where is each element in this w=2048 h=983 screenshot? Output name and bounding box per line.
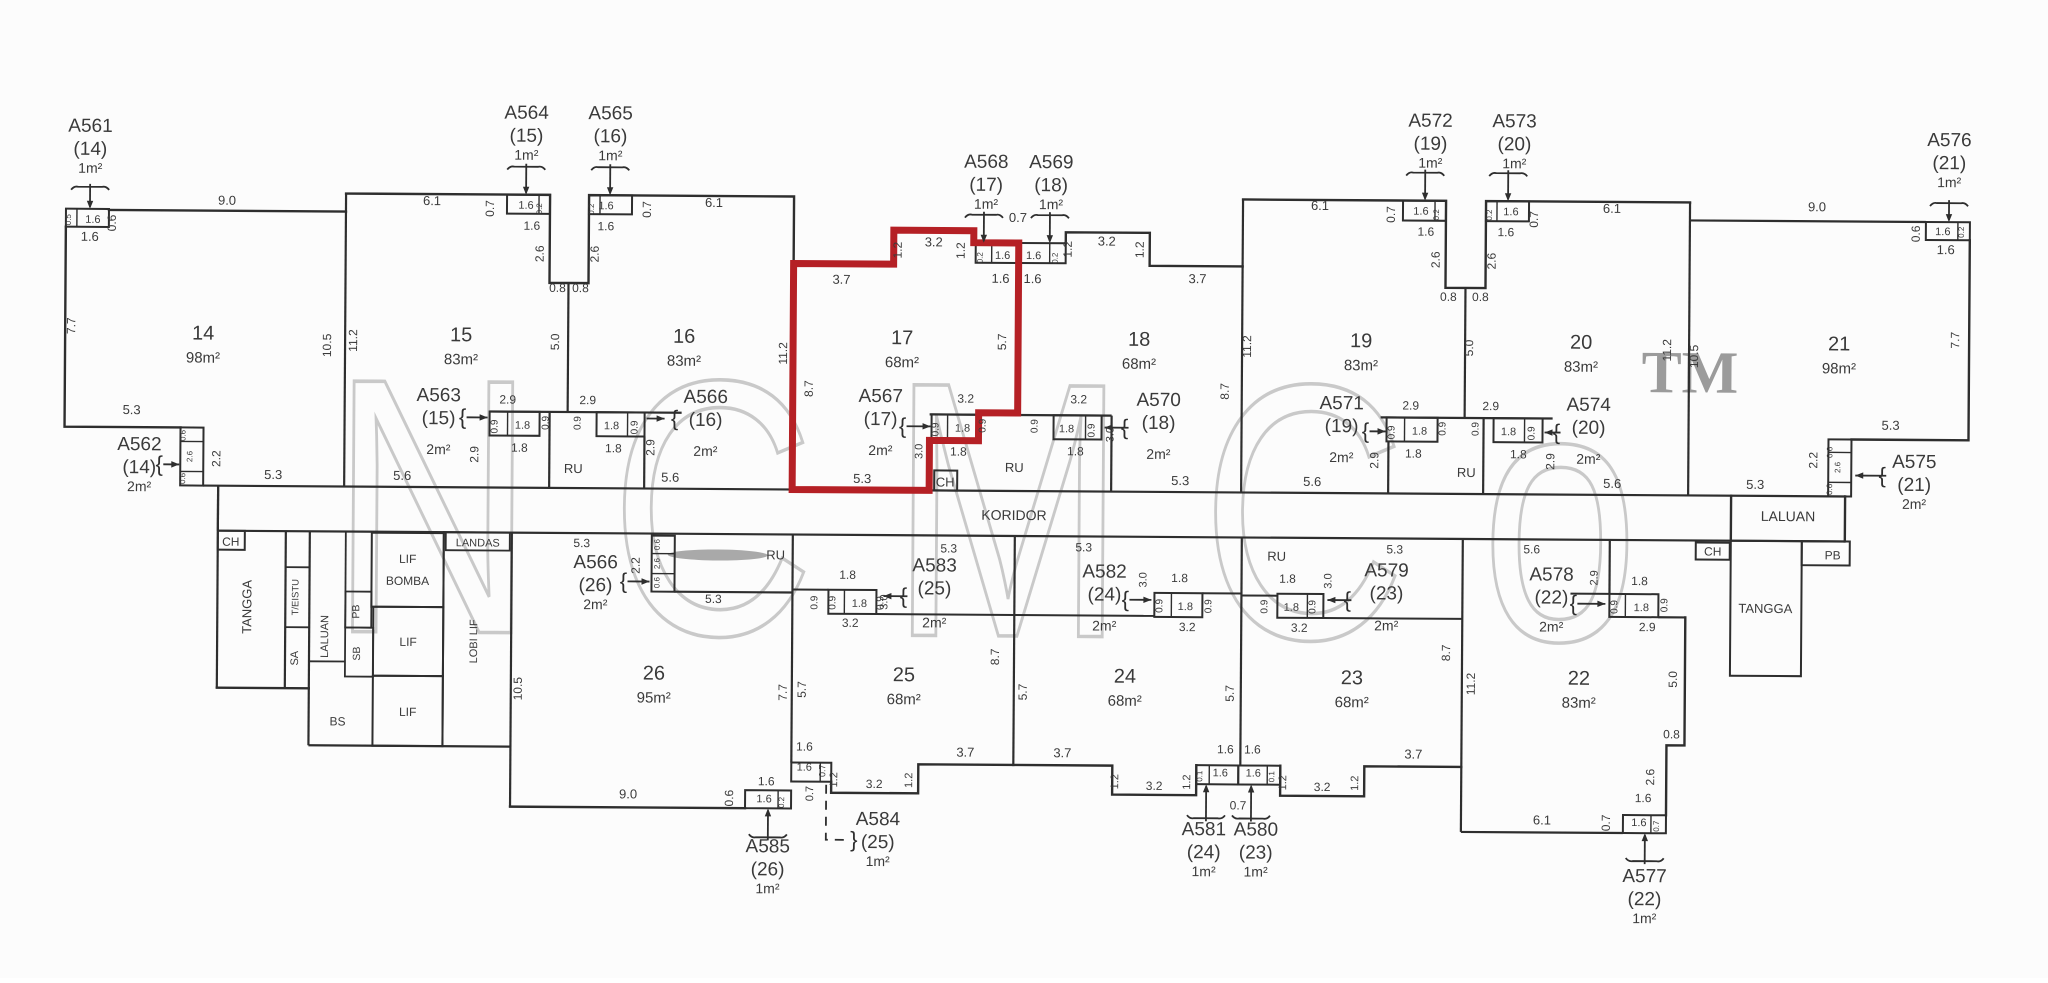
svg-text:1.8: 1.8 — [1510, 447, 1527, 461]
arrow A579 — [1327, 599, 1351, 601]
TANGGA room left — [217, 686, 309, 689]
svg-text:1.2: 1.2 — [1109, 774, 1121, 789]
svg-text:1m²: 1m² — [514, 147, 539, 163]
svg-text:1.6: 1.6 — [1417, 225, 1434, 239]
svg-text:5.3: 5.3 — [1386, 542, 1403, 556]
svg-text:LIF: LIF — [399, 552, 416, 566]
svg-text:6.1: 6.1 — [1533, 812, 1551, 827]
svg-text:2.2: 2.2 — [1806, 452, 1820, 469]
svg-text:(14): (14) — [73, 139, 107, 160]
svg-text:0.9: 0.9 — [1609, 600, 1620, 614]
svg-text:98m²: 98m² — [186, 349, 220, 366]
svg-text:2m²: 2m² — [1146, 446, 1171, 462]
svg-text:1m²: 1m² — [1502, 155, 1527, 171]
svg-text:5.3: 5.3 — [123, 402, 141, 417]
svg-text:1.2: 1.2 — [1133, 241, 1147, 258]
SB box — [345, 628, 373, 677]
svg-text:A581: A581 — [1182, 819, 1227, 840]
niche wall 19-side — [1387, 441, 1390, 493]
svg-text:0.7: 0.7 — [1230, 798, 1247, 812]
PB box right — [1802, 541, 1850, 565]
svg-text:68m²: 68m² — [885, 354, 919, 371]
svg-text:(16): (16) — [593, 126, 627, 147]
svg-text:3.0: 3.0 — [1137, 572, 1149, 587]
wall 19|20 upper — [1464, 288, 1467, 418]
svg-text:0.1: 0.1 — [1267, 771, 1276, 783]
svg-text:2.6: 2.6 — [1485, 252, 1499, 269]
bottom steps 25 — [831, 764, 1013, 794]
svg-text:6.1: 6.1 — [1311, 198, 1329, 213]
svg-text:2.6: 2.6 — [185, 450, 194, 462]
svg-text:1m²: 1m² — [1039, 196, 1064, 212]
svg-text:1.6: 1.6 — [796, 740, 813, 754]
svg-text:2.2: 2.2 — [209, 450, 223, 467]
svg-text:KORIDOR: KORIDOR — [981, 507, 1046, 523]
bottom steps 24 left — [1013, 764, 1196, 795]
svg-text:5.0: 5.0 — [548, 333, 562, 350]
svg-text:A571: A571 — [1319, 393, 1364, 414]
svg-text:}: } — [850, 827, 858, 852]
svg-text:(21): (21) — [1897, 475, 1931, 496]
LOBI LIF column — [442, 532, 443, 746]
svg-text:0.9: 0.9 — [1259, 599, 1270, 613]
svg-text:1.6: 1.6 — [85, 214, 100, 226]
svg-text:3.2: 3.2 — [1146, 779, 1163, 793]
svg-text:2m²: 2m² — [1902, 496, 1927, 512]
arrow A567 — [907, 425, 931, 427]
arrow A581 — [1187, 815, 1225, 818]
unit 18|19 wall — [1241, 199, 1243, 492]
svg-text:3.7: 3.7 — [1188, 271, 1206, 286]
unit 16|17 wall — [792, 263, 793, 489]
svg-text:2.6: 2.6 — [533, 245, 547, 262]
svg-text:RU: RU — [564, 461, 583, 476]
svg-text:83m²: 83m² — [1564, 359, 1598, 376]
notch door box 16 (A565) — [589, 195, 632, 214]
arrow A585 — [749, 834, 787, 837]
svg-text:{: { — [1121, 415, 1129, 440]
svg-text:0.9: 0.9 — [1203, 599, 1214, 613]
svg-text:A576: A576 — [1927, 130, 1972, 151]
arrow A583 — [883, 595, 907, 597]
svg-text:A584: A584 — [856, 809, 901, 830]
svg-text:A564: A564 — [504, 103, 549, 124]
LALUAN box right — [1730, 496, 1733, 541]
svg-text:(18): (18) — [1142, 413, 1176, 434]
svg-text:22: 22 — [1568, 668, 1590, 690]
svg-text:2.2: 2.2 — [629, 557, 643, 574]
service bottom — [308, 745, 510, 746]
svg-text:3.2: 3.2 — [1098, 234, 1116, 249]
LIF 3 — [372, 676, 442, 746]
svg-text:1.6: 1.6 — [1213, 767, 1228, 779]
arrow A565 — [591, 167, 629, 170]
svg-text:0.7: 0.7 — [1009, 210, 1027, 225]
svg-text:2.9: 2.9 — [643, 439, 657, 456]
arrow A573 — [1489, 173, 1527, 176]
corridor bottom line — [218, 531, 1845, 542]
svg-text:3.0: 3.0 — [913, 444, 925, 459]
arrow A575 — [1855, 475, 1886, 477]
svg-text:2.6: 2.6 — [653, 557, 662, 569]
svg-text:1.8: 1.8 — [1067, 444, 1084, 458]
svg-text:TANGGA: TANGGA — [239, 580, 254, 634]
svg-text:0.8: 0.8 — [1472, 290, 1489, 304]
unit 19/20 block top — [1242, 199, 1690, 289]
A581/A580 door boxes — [1196, 765, 1238, 784]
svg-text:3.0: 3.0 — [1322, 573, 1334, 588]
svg-text:1.8: 1.8 — [1405, 447, 1422, 461]
svg-text:1.6: 1.6 — [995, 250, 1010, 262]
svg-text:0.6: 0.6 — [178, 472, 187, 484]
svg-text:68m²: 68m² — [1108, 693, 1142, 710]
svg-text:0.9: 0.9 — [541, 415, 552, 429]
svg-text:83m²: 83m² — [1344, 357, 1378, 374]
svg-text:1.6: 1.6 — [1413, 206, 1428, 218]
arrow A571 — [1370, 430, 1386, 432]
svg-text:1.6: 1.6 — [523, 219, 540, 233]
svg-text:8.7: 8.7 — [1218, 383, 1232, 400]
svg-text:A578: A578 — [1529, 564, 1574, 585]
CH box left — [218, 531, 245, 550]
svg-text:A573: A573 — [1492, 111, 1537, 132]
svg-text:LALUAN: LALUAN — [1761, 508, 1816, 524]
svg-text:0.2: 0.2 — [1485, 209, 1494, 221]
svg-text:0.9: 0.9 — [489, 419, 500, 433]
svg-text:1.6: 1.6 — [1635, 791, 1652, 805]
svg-text:6.1: 6.1 — [423, 193, 441, 208]
svg-text:CH: CH — [222, 535, 239, 549]
svg-text:1.6: 1.6 — [991, 271, 1009, 286]
arrow A563 — [467, 416, 488, 418]
svg-text:2m²: 2m² — [1092, 617, 1117, 633]
svg-text:1.8: 1.8 — [1631, 574, 1648, 588]
svg-text:5.6: 5.6 — [1303, 474, 1321, 489]
svg-text:{: { — [1362, 418, 1370, 443]
svg-text:2m²: 2m² — [583, 596, 608, 612]
svg-text:83m²: 83m² — [444, 351, 478, 368]
svg-text:9.0: 9.0 — [218, 193, 236, 208]
TANGGA room right — [1730, 541, 1802, 676]
bottom steps 23 — [1280, 766, 1461, 797]
svg-text:1.2: 1.2 — [891, 241, 905, 258]
unit 18 top steps — [1066, 232, 1243, 266]
svg-text:2.9: 2.9 — [1589, 570, 1601, 585]
svg-text:26: 26 — [643, 663, 665, 685]
svg-text:A565: A565 — [588, 103, 633, 124]
svg-text:5.3: 5.3 — [573, 536, 590, 550]
svg-text:1.2: 1.2 — [828, 772, 840, 787]
wall 19|20 lower — [1482, 418, 1485, 494]
LIF BOMBA — [371, 533, 443, 607]
svg-text:5.7: 5.7 — [795, 681, 809, 698]
svg-text:3.7: 3.7 — [832, 272, 850, 287]
svg-text:0.9: 0.9 — [1086, 423, 1097, 437]
unit 14|15 wall — [344, 194, 346, 487]
svg-text:19: 19 — [1350, 330, 1372, 352]
arrow A569 — [1031, 215, 1069, 218]
svg-text:{: { — [671, 406, 679, 431]
dashed leader A584 — [826, 785, 846, 840]
svg-text:2.9: 2.9 — [1367, 452, 1381, 469]
svg-text:1.6: 1.6 — [1503, 206, 1518, 218]
svg-text:A582: A582 — [1082, 561, 1127, 582]
svg-text:11.2: 11.2 — [1464, 672, 1478, 695]
svg-text:11.2: 11.2 — [346, 329, 360, 352]
A583 door box — [792, 588, 828, 590]
svg-text:1.8: 1.8 — [1178, 601, 1193, 613]
svg-text:8.7: 8.7 — [802, 380, 816, 397]
svg-text:0.6: 0.6 — [653, 538, 662, 550]
svg-text:0.7: 0.7 — [640, 201, 654, 218]
svg-text:1.6: 1.6 — [1937, 242, 1955, 257]
svg-text:1.8: 1.8 — [511, 441, 528, 455]
svg-text:1m²: 1m² — [78, 160, 103, 176]
A574 door box — [1493, 418, 1542, 442]
LIF 2 — [373, 607, 443, 676]
unit 14 outline — [65, 227, 182, 428]
A571 door box — [1386, 417, 1437, 441]
svg-text:2.6: 2.6 — [1833, 461, 1842, 473]
svg-text:A579: A579 — [1364, 560, 1409, 581]
svg-text:LIF: LIF — [399, 705, 416, 719]
svg-text:3.2: 3.2 — [925, 234, 943, 249]
svg-text:9.0: 9.0 — [1808, 199, 1826, 214]
svg-text:1.6: 1.6 — [797, 762, 812, 774]
svg-text:1.6: 1.6 — [1244, 742, 1261, 756]
svg-text:TANGGA: TANGGA — [1738, 601, 1792, 616]
CH box center — [934, 470, 957, 490]
svg-text:RU: RU — [766, 547, 785, 562]
svg-text:5.7: 5.7 — [1016, 683, 1030, 700]
svg-text:0.9: 0.9 — [827, 595, 838, 609]
arrow A566 — [647, 418, 665, 420]
svg-text:CH: CH — [1704, 545, 1721, 559]
svg-text:2m²: 2m² — [1576, 451, 1601, 467]
svg-text:2.9: 2.9 — [579, 393, 596, 407]
svg-text:3.2: 3.2 — [1070, 392, 1087, 406]
svg-text:1.6: 1.6 — [756, 793, 771, 805]
svg-text:0.7: 0.7 — [1384, 206, 1398, 223]
svg-text:1.6: 1.6 — [1023, 271, 1041, 286]
svg-text:(15): (15) — [510, 126, 544, 147]
arrow A580 — [1232, 815, 1270, 818]
svg-text:1.6: 1.6 — [81, 229, 99, 244]
svg-text:1m²: 1m² — [866, 853, 891, 869]
svg-text:CH: CH — [936, 474, 955, 489]
svg-text:1.6: 1.6 — [1026, 250, 1041, 262]
LALUAN column — [344, 532, 347, 628]
svg-text:14: 14 — [192, 323, 214, 345]
niche wall right (18) — [1110, 416, 1113, 492]
svg-text:1.8: 1.8 — [955, 423, 970, 435]
svg-text:3.2: 3.2 — [1314, 780, 1331, 794]
svg-text:A567: A567 — [858, 386, 903, 407]
line left of A578 box — [1570, 593, 1609, 595]
svg-text:1.8: 1.8 — [852, 598, 867, 610]
svg-text:(23): (23) — [1369, 583, 1403, 604]
svg-text:0.6: 0.6 — [1825, 483, 1834, 495]
svg-text:7.7: 7.7 — [1948, 331, 1962, 348]
svg-text:RU: RU — [1267, 549, 1286, 564]
svg-text:(16): (16) — [689, 410, 723, 431]
svg-text:SA: SA — [289, 650, 301, 665]
svg-text:3.7: 3.7 — [1053, 745, 1071, 760]
A566(26) door stack — [651, 536, 674, 592]
svg-text:(25): (25) — [918, 578, 952, 599]
svg-text:5.6: 5.6 — [393, 468, 411, 483]
svg-text:3.2: 3.2 — [1179, 620, 1196, 634]
svg-text:BOMBA: BOMBA — [386, 574, 429, 588]
svg-text:1.2: 1.2 — [954, 242, 968, 259]
svg-text:68m²: 68m² — [1122, 356, 1156, 373]
svg-text:1.8: 1.8 — [1279, 572, 1296, 586]
unit 22 right steps — [1666, 617, 1685, 815]
svg-text:5.3: 5.3 — [1075, 540, 1092, 554]
arrow A566-26 — [628, 580, 650, 582]
svg-text:A575: A575 — [1892, 452, 1937, 473]
svg-text:0.7: 0.7 — [1652, 820, 1661, 832]
arrow A564 — [507, 166, 545, 169]
svg-text:5.6: 5.6 — [661, 470, 679, 485]
svg-text:(14): (14) — [122, 457, 156, 478]
svg-text:2m²: 2m² — [1539, 618, 1564, 634]
svg-text:11.2: 11.2 — [776, 342, 790, 365]
svg-text:83m²: 83m² — [667, 353, 701, 370]
svg-text:2.6: 2.6 — [1429, 251, 1443, 268]
svg-text:0.2: 0.2 — [777, 796, 786, 808]
svg-text:23: 23 — [1341, 667, 1363, 689]
svg-text:20: 20 — [1570, 332, 1592, 354]
svg-text:0.9: 0.9 — [1526, 426, 1537, 440]
svg-text:3.2: 3.2 — [957, 392, 974, 406]
svg-text:3.2: 3.2 — [842, 616, 859, 630]
svg-text:1.6: 1.6 — [1246, 768, 1261, 780]
svg-text:1m²: 1m² — [1243, 863, 1268, 879]
svg-text:0.6: 0.6 — [652, 576, 661, 588]
svg-text:0.9: 0.9 — [1659, 598, 1670, 612]
svg-text:0.9: 0.9 — [1030, 419, 1041, 433]
svg-text:A561: A561 — [68, 116, 113, 137]
A585 door box — [745, 790, 791, 808]
svg-text:1.2: 1.2 — [1277, 775, 1289, 790]
svg-text:{: { — [899, 413, 907, 438]
unit 25|24 wall — [1013, 536, 1015, 765]
svg-text:(22): (22) — [1627, 889, 1661, 910]
red outline unit 17 — [792, 229, 1019, 490]
svg-text:0.9: 0.9 — [1438, 421, 1449, 435]
svg-text:1.6: 1.6 — [597, 219, 614, 233]
unit 22 bottom — [1461, 832, 1623, 833]
svg-text:5.3: 5.3 — [940, 541, 957, 555]
svg-text:0.8: 0.8 — [1663, 727, 1680, 741]
door row 15|16: line — [490, 411, 682, 412]
arrow A574 — [1545, 431, 1561, 433]
svg-text:16: 16 — [673, 326, 695, 348]
unit 14 bottom door A562 box stack — [180, 427, 203, 485]
svg-text:0.5: 0.5 — [64, 214, 73, 226]
svg-text:95m²: 95m² — [637, 689, 671, 706]
svg-text:8.7: 8.7 — [988, 648, 1002, 665]
svg-text:5.7: 5.7 — [995, 333, 1009, 350]
svg-text:SB: SB — [351, 647, 363, 661]
arrow A572 — [1406, 172, 1444, 175]
svg-text:RU: RU — [1005, 460, 1024, 475]
svg-text:PB: PB — [350, 605, 362, 619]
notch door box 20 (A573) — [1486, 201, 1529, 221]
svg-text:3.2: 3.2 — [1291, 621, 1308, 635]
A582 door box — [1014, 614, 1154, 617]
svg-text:0.6: 0.6 — [722, 789, 736, 806]
svg-text:25: 25 — [893, 664, 915, 686]
svg-text:5.3: 5.3 — [1746, 477, 1764, 492]
service left edge — [217, 486, 218, 688]
svg-text:3.0: 3.0 — [878, 594, 890, 609]
svg-text:17: 17 — [891, 327, 913, 349]
svg-text:(26): (26) — [751, 859, 785, 880]
svg-text:0.9: 0.9 — [809, 595, 820, 609]
svg-text:2m²: 2m² — [868, 442, 893, 458]
svg-text:0.9: 0.9 — [629, 420, 640, 434]
svg-text:0.7: 0.7 — [817, 764, 827, 777]
svg-text:LOBI LIF: LOBI LIF — [468, 619, 480, 663]
svg-text:0.7: 0.7 — [804, 786, 816, 801]
svg-text:5.3: 5.3 — [1881, 418, 1899, 433]
svg-text:LANDAS: LANDAS — [456, 537, 500, 549]
svg-text:{: { — [1570, 591, 1578, 616]
svg-text:3.7: 3.7 — [1404, 747, 1422, 762]
watermark swoosh — [668, 549, 768, 561]
svg-text:RU: RU — [1457, 465, 1476, 480]
svg-text:11.2: 11.2 — [1660, 339, 1674, 362]
watermark NCMCo — [329, 304, 1716, 719]
unit 26|25 wall — [791, 534, 793, 762]
svg-text:5.6: 5.6 — [1523, 542, 1540, 556]
svg-text:0.7: 0.7 — [1599, 814, 1613, 831]
svg-text:2m²: 2m² — [693, 443, 718, 459]
svg-text:A570: A570 — [1136, 390, 1181, 411]
svg-text:1.6: 1.6 — [518, 200, 533, 212]
svg-text:5.7: 5.7 — [1223, 685, 1237, 702]
svg-text:2m²: 2m² — [1329, 449, 1354, 465]
svg-text:3.7: 3.7 — [956, 745, 974, 760]
svg-text:7.7: 7.7 — [776, 684, 790, 701]
PB box — [345, 592, 371, 628]
svg-text:PB: PB — [1825, 548, 1841, 562]
A569 door box — [1020, 243, 1066, 263]
svg-text:24: 24 — [1114, 666, 1136, 688]
svg-text:21: 21 — [1828, 333, 1850, 355]
svg-text:1.8: 1.8 — [1171, 571, 1188, 585]
svg-text:1.8: 1.8 — [605, 441, 622, 455]
svg-text:83m²: 83m² — [1562, 695, 1596, 712]
svg-text:1.8: 1.8 — [604, 420, 619, 432]
unit 20|21 wall — [1688, 202, 1690, 495]
svg-text:68m²: 68m² — [887, 691, 921, 708]
niche wall left (17) — [929, 414, 979, 490]
svg-text:1m²: 1m² — [1191, 863, 1216, 879]
svg-text:3.2: 3.2 — [866, 777, 883, 791]
svg-text:{: { — [620, 568, 628, 593]
svg-text:10.5: 10.5 — [1687, 344, 1701, 368]
svg-text:2.9: 2.9 — [499, 393, 516, 407]
svg-text:(19): (19) — [1325, 416, 1359, 437]
svg-text:(24): (24) — [1087, 584, 1121, 605]
svg-text:2m²: 2m² — [1374, 617, 1399, 633]
svg-text:0.6: 0.6 — [1825, 446, 1834, 458]
A563 door box — [489, 411, 539, 435]
svg-text:6.1: 6.1 — [1603, 201, 1621, 216]
